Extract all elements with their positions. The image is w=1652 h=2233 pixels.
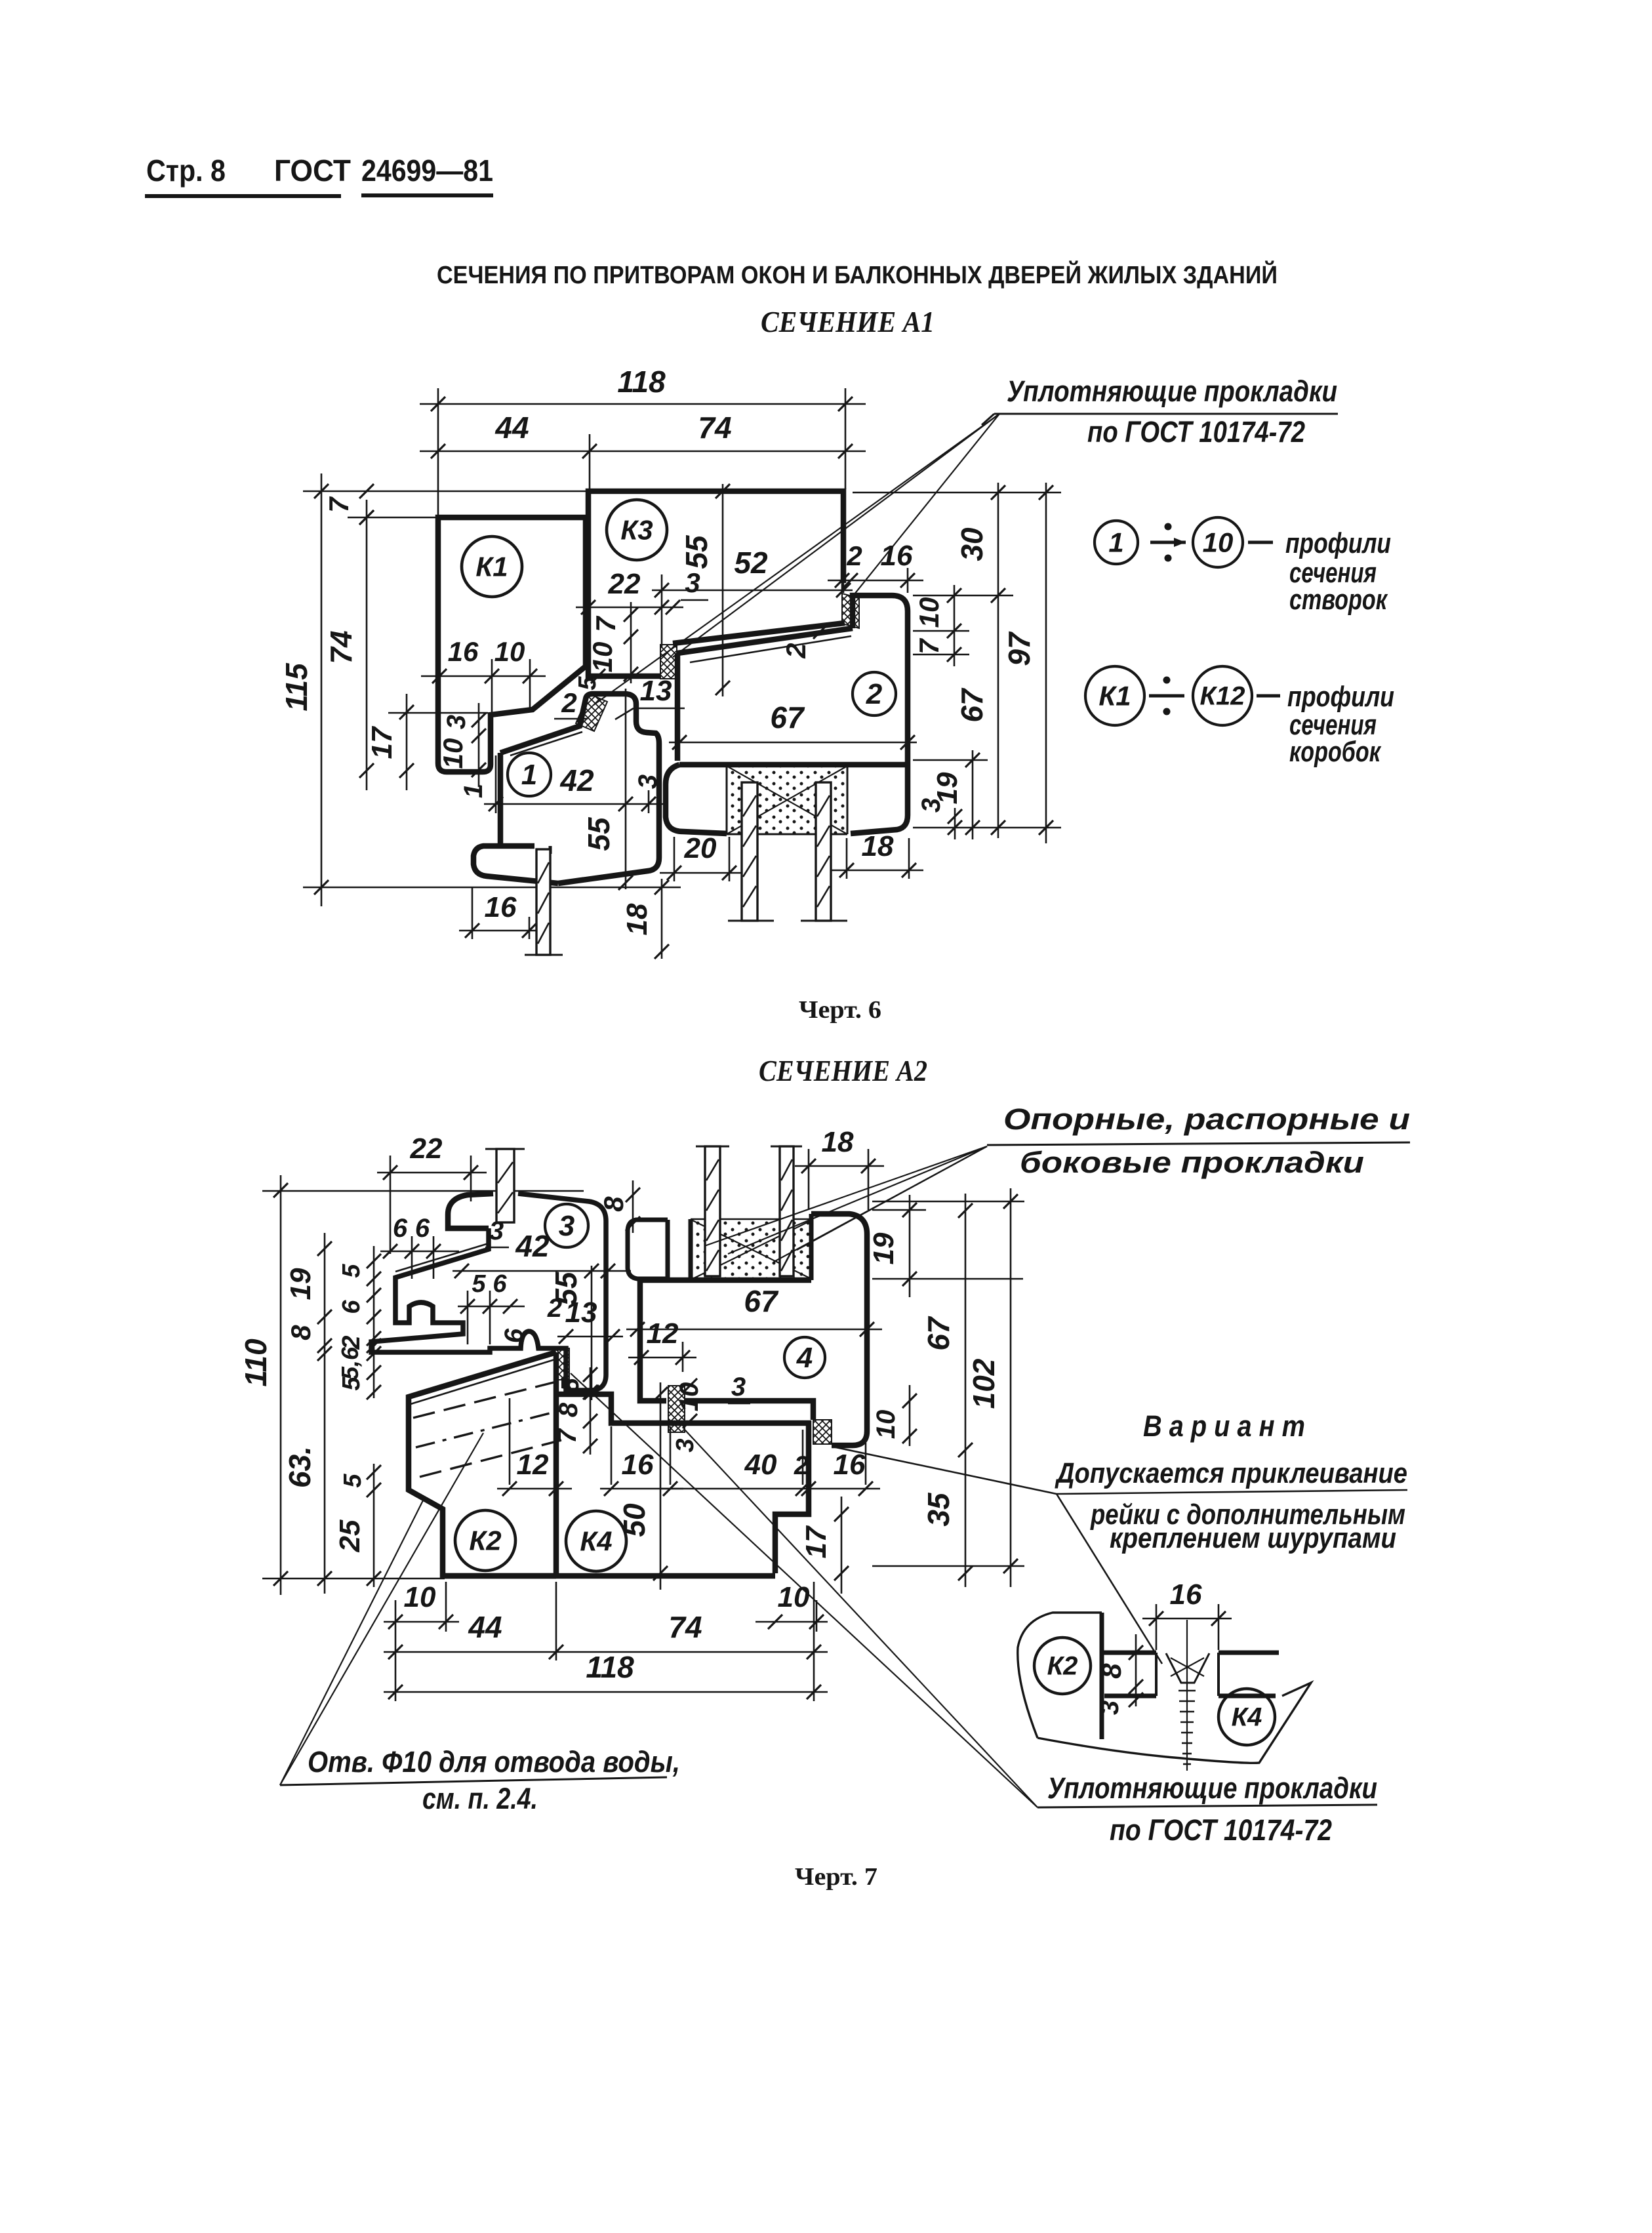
dim 35	[965, 1470, 967, 1587]
seal top right hatch	[842, 593, 859, 628]
svg-text:67: 67	[744, 1284, 779, 1318]
K4 bottom edge	[443, 1573, 775, 1579]
svg-text:35: 35	[921, 1492, 956, 1527]
svg-text:13: 13	[565, 1297, 597, 1329]
dim 67 d2	[626, 1329, 882, 1331]
svg-text:8: 8	[285, 1325, 316, 1340]
legend divide sign 1	[1150, 541, 1186, 544]
profile K2 outline	[409, 1352, 556, 1576]
dim 3 / 10 small	[478, 703, 480, 787]
profile 1 left edge	[498, 753, 504, 847]
svg-text:К3: К3	[620, 514, 653, 545]
svg-text:10: 10	[1203, 527, 1234, 557]
svg-text:67: 67	[955, 687, 989, 723]
variant circle K4	[1219, 1689, 1275, 1745]
circle 4	[784, 1337, 825, 1378]
svg-text:створок: створок	[1289, 584, 1388, 616]
svg-text:К1: К1	[475, 551, 508, 582]
dim 42 d2	[453, 1270, 631, 1272]
profile 3 inner slope line	[395, 1243, 489, 1272]
svg-text:12: 12	[517, 1449, 549, 1481]
svg-text:10: 10	[437, 738, 468, 769]
svg-text:4: 4	[796, 1342, 813, 1374]
glazing bead 3 block	[628, 1220, 668, 1279]
svg-text:6: 6	[338, 1300, 365, 1314]
seal profile3 hatch	[555, 1348, 569, 1380]
dim 118 top	[420, 403, 866, 405]
svg-text:Черт. 6: Черт. 6	[799, 996, 881, 1024]
legend circle K12	[1193, 666, 1252, 725]
dims 5 8 7 col	[590, 1367, 592, 1455]
svg-text:44: 44	[494, 411, 529, 445]
svg-text:СЕЧЕНИЕ А1: СЕЧЕНИЕ А1	[761, 305, 935, 338]
svg-text:19: 19	[285, 1268, 317, 1300]
glass pane 4a	[705, 1146, 720, 1276]
svg-text:1: 1	[1108, 527, 1123, 557]
variant dim 8	[1135, 1634, 1137, 1706]
svg-text:боковые прокладки: боковые прокладки	[1020, 1146, 1364, 1179]
otv leader lines	[280, 1433, 483, 1785]
svg-text:40: 40	[744, 1449, 777, 1481]
header underline right	[361, 193, 493, 197]
dim 40	[660, 1488, 817, 1490]
svg-text:18: 18	[822, 1126, 854, 1158]
svg-text:3: 3	[731, 1373, 746, 1401]
dim 18 bottom left of profile2	[661, 879, 663, 959]
dim 10 bottom right	[755, 1621, 828, 1623]
svg-text:3: 3	[917, 798, 946, 813]
svg-text:110: 110	[239, 1338, 273, 1387]
svg-text:3: 3	[1095, 1700, 1124, 1715]
dim 2 16 top right	[828, 580, 923, 582]
profile 4 glass U walls	[689, 1219, 693, 1280]
dim 67 right col	[965, 1194, 967, 1470]
leader fan packing (opornye)	[704, 1146, 987, 1246]
svg-text:6: 6	[493, 1270, 507, 1298]
variant dim 16	[1142, 1618, 1232, 1620]
circle K3	[607, 500, 667, 560]
dim 16 glass1	[459, 930, 546, 932]
svg-text:16: 16	[622, 1449, 654, 1481]
header underline left	[145, 194, 341, 198]
svg-text:63.: 63.	[283, 1446, 317, 1488]
dim 18 d2	[795, 1165, 884, 1167]
svg-text:8: 8	[1096, 1663, 1127, 1679]
svg-text:профили: профили	[1285, 527, 1391, 559]
svg-text:74: 74	[668, 1610, 702, 1644]
svg-text:16: 16	[834, 1449, 866, 1481]
leader fan top (seals)	[594, 414, 999, 705]
profile 2 right edge	[851, 611, 908, 834]
svg-text:17: 17	[366, 725, 398, 759]
svg-text:6: 6	[393, 1214, 408, 1243]
circle K2	[455, 1510, 515, 1571]
dim 7 left	[359, 484, 374, 498]
dim 3 right	[954, 808, 956, 839]
svg-text:СЕЧЕНИЕ А2: СЕЧЕНИЕ А2	[759, 1054, 927, 1087]
svg-text:3: 3	[559, 1210, 574, 1242]
svg-text:Опорные, распорные и: Опорные, распорные и	[1003, 1102, 1410, 1136]
profile K1 outline	[438, 517, 586, 772]
svg-text:102: 102	[967, 1358, 1001, 1409]
svg-text:44: 44	[468, 1610, 502, 1644]
circle K1	[462, 536, 522, 597]
svg-text:55: 55	[679, 534, 714, 569]
variant screw axis and thread	[1186, 1620, 1188, 1771]
svg-text:118: 118	[586, 1650, 634, 1684]
svg-text:3: 3	[685, 567, 700, 598]
svg-text:К1: К1	[1098, 680, 1131, 711]
dim 52	[652, 590, 853, 592]
dim 6 6 top	[380, 1251, 459, 1253]
svg-text:97: 97	[1002, 631, 1036, 666]
svg-text:25: 25	[334, 1519, 366, 1552]
svg-text:см. п. 2.4.: см. п. 2.4.	[422, 1782, 538, 1815]
svg-text:55: 55	[582, 816, 616, 851]
dim 74 left	[366, 500, 368, 790]
svg-text:1: 1	[521, 759, 537, 791]
opornye leader line	[987, 1142, 1410, 1145]
svg-text:10: 10	[494, 636, 525, 667]
dim 97 right	[1045, 483, 1047, 843]
svg-text:118: 118	[617, 365, 666, 399]
glass pane 3	[496, 1149, 514, 1222]
svg-text:Уплотняющие прокладки: Уплотняющие прокладки	[1007, 374, 1337, 408]
svg-text:13: 13	[640, 675, 672, 707]
dim 44 bottom	[384, 1651, 828, 1653]
variant rail bottom	[1104, 1694, 1156, 1699]
legend dash 2	[1257, 694, 1280, 698]
svg-text:16: 16	[485, 891, 517, 923]
K2-K4 divider	[554, 1352, 559, 1576]
circle 2	[853, 672, 896, 715]
circle 1	[508, 753, 551, 796]
seal profile4 left hatch	[668, 1386, 685, 1432]
seal profile4 right hatch	[813, 1420, 832, 1444]
svg-text:Допускается приклеивание: Допускается приклеивание	[1055, 1457, 1407, 1489]
profile 2 shelf	[679, 762, 908, 768]
legend circle 10	[1193, 517, 1243, 567]
dim 50	[660, 1382, 662, 1590]
K2 drainage dash lines	[413, 1381, 559, 1418]
profile 3 body	[371, 1194, 606, 1390]
svg-text:5: 5	[338, 1264, 365, 1278]
dim 5 6 mid	[458, 1306, 525, 1308]
left dim col 19	[324, 1233, 326, 1333]
svg-text:Уплотняющие прокладки: Уплотняющие прокладки	[1047, 1771, 1377, 1805]
svg-text:22: 22	[410, 1133, 443, 1165]
glass pane 1	[536, 849, 550, 955]
svg-text:16: 16	[1170, 1579, 1202, 1611]
glass pane 4b	[780, 1146, 794, 1276]
dim 18 under profile2	[832, 870, 923, 872]
dim 67 right	[997, 606, 999, 838]
svg-text:50: 50	[617, 1503, 651, 1537]
svg-text:7: 7	[323, 496, 354, 513]
profile 4 left and bottom	[640, 1280, 666, 1401]
leader text line	[994, 413, 1338, 415]
circle 3	[545, 1204, 588, 1247]
svg-text:42: 42	[559, 763, 594, 797]
dim 110	[280, 1175, 282, 1595]
svg-text:коробок: коробок	[1289, 736, 1382, 768]
svg-text:12: 12	[647, 1318, 679, 1350]
svg-text:74: 74	[698, 411, 731, 445]
profile K4 outline	[556, 1394, 809, 1573]
seal K3-sash hatch	[660, 645, 677, 679]
left dim col 63	[324, 1333, 326, 1594]
svg-text:Отв. Ф10 для отвода воды,: Отв. Ф10 для отвода воды,	[308, 1745, 680, 1779]
svg-text:10: 10	[587, 642, 618, 673]
dim 12 b	[628, 1357, 696, 1359]
dim 16 10 (K1 bottom)	[421, 675, 546, 677]
svg-text:К4: К4	[1232, 1703, 1262, 1732]
svg-text:7: 7	[914, 638, 944, 654]
svg-text:ГОСТ: ГОСТ	[274, 153, 351, 188]
right extension lines	[913, 595, 1013, 597]
left small col ticks	[373, 1246, 375, 1398]
profile 2 top edge	[853, 595, 908, 628]
svg-text:К2: К2	[1047, 1652, 1078, 1681]
svg-text:креплением шурупами: креплением шурупами	[1110, 1522, 1396, 1554]
svg-text:19: 19	[868, 1232, 900, 1264]
legend dash 1	[1248, 541, 1273, 544]
dim 102	[1010, 1188, 1012, 1587]
glass stop lines	[728, 920, 774, 922]
svg-text:Черт. 7: Черт. 7	[795, 1863, 877, 1891]
legend divide sign 2	[1149, 694, 1184, 698]
svg-text:по ГОСТ 10174-72: по ГОСТ 10174-72	[1110, 1813, 1332, 1847]
svg-text:5: 5	[339, 1474, 367, 1488]
variant circle K2	[1034, 1638, 1091, 1694]
dim 8 glass top d2	[632, 1180, 634, 1233]
svg-text:17: 17	[800, 1525, 832, 1558]
svg-text:115: 115	[279, 662, 313, 712]
dim 10 bottom left	[384, 1621, 459, 1623]
glass pane 2b	[816, 782, 831, 921]
dim 55 profile1 height	[625, 689, 627, 889]
profile 3 outline	[448, 1194, 493, 1228]
dim 55 K3	[722, 484, 724, 696]
variant screw countersink	[1166, 1653, 1209, 1683]
svg-text:10: 10	[404, 1581, 436, 1613]
svg-text:20: 20	[684, 832, 717, 864]
svg-text:10: 10	[914, 597, 944, 628]
svg-text:профили: профили	[1287, 681, 1394, 713]
svg-text:3: 3	[442, 715, 471, 729]
dim 7 right	[947, 647, 961, 662]
svg-text:2: 2	[561, 687, 576, 718]
svg-text:74: 74	[324, 630, 358, 664]
legend circle 1	[1095, 521, 1138, 564]
svg-text:СЕЧЕНИЯ ПО ПРИТВОРАМ ОКОН И БА: СЕЧЕНИЯ ПО ПРИТВОРАМ ОКОН И БАЛКОННЫХ ДВ…	[437, 260, 1278, 289]
K2 inner slope line	[411, 1359, 555, 1404]
bead1 inner wall	[549, 846, 552, 854]
svg-text:2: 2	[547, 1294, 562, 1323]
svg-text:10: 10	[778, 1581, 810, 1613]
seal K1 hatch	[576, 694, 607, 731]
svg-text:по ГОСТ 10174-72: по ГОСТ 10174-72	[1087, 415, 1305, 449]
variant dim 3	[1129, 1693, 1143, 1707]
svg-text:42: 42	[515, 1229, 550, 1263]
svg-text:6: 6	[415, 1214, 430, 1243]
svg-text:22: 22	[608, 568, 641, 600]
dim 118 bottom	[384, 1691, 828, 1693]
dim 30 right	[997, 483, 999, 606]
svg-text:5: 5	[338, 1377, 365, 1391]
bead 2 left	[666, 765, 727, 834]
variant rail top	[1102, 1651, 1156, 1655]
glazing bead 1	[473, 846, 558, 883]
vestibule slope lines	[673, 623, 845, 643]
dopuskaetsya leader	[1057, 1490, 1407, 1494]
dim 115 left	[321, 473, 323, 906]
svg-text:18: 18	[862, 830, 894, 862]
svg-text:10: 10	[872, 1410, 900, 1439]
profile 1 outline	[500, 694, 659, 883]
profile 4 right side	[811, 1214, 867, 1445]
legend circle K1	[1085, 666, 1144, 725]
svg-text:67: 67	[921, 1316, 956, 1351]
uplotn bottom leaders	[685, 1430, 1038, 1807]
svg-text:16: 16	[448, 636, 479, 667]
dim 12 left d2	[497, 1488, 572, 1490]
dim 19 right d2	[909, 1195, 911, 1297]
dim 42 profile1	[484, 803, 664, 805]
dim 16 mid d2	[600, 1488, 683, 1490]
dim 17 rot	[841, 1497, 843, 1594]
dim 10 right	[954, 585, 956, 666]
svg-text:1: 1	[459, 784, 488, 798]
glass pane 2a	[742, 782, 757, 921]
dim 19 right	[972, 750, 974, 839]
packing d2 dots	[693, 1220, 811, 1279]
svg-text:К4: К4	[580, 1525, 612, 1556]
dim 22 d2	[377, 1172, 487, 1174]
dim 17	[406, 694, 408, 790]
profile 4 upper shelf	[640, 1277, 811, 1283]
svg-text:18: 18	[621, 903, 653, 935]
glass caps d2	[696, 1146, 729, 1148]
circle K4	[566, 1511, 626, 1571]
profile 1 inner slope line	[510, 732, 582, 755]
svg-text:К2: К2	[469, 1525, 501, 1556]
svg-text:Стр. 8: Стр. 8	[146, 153, 226, 188]
svg-text:2: 2	[866, 678, 883, 710]
dim 44	[420, 451, 866, 453]
svg-text:7: 7	[590, 616, 621, 632]
svg-text:5: 5	[472, 1270, 486, 1298]
svg-text:5,6: 5,6	[336, 1346, 363, 1380]
svg-text:2: 2	[846, 540, 862, 571]
dim 55 d2	[591, 1266, 593, 1400]
dim 20	[660, 872, 742, 874]
svg-text:52: 52	[734, 546, 768, 580]
dim 22	[576, 607, 683, 609]
svg-text:30: 30	[955, 527, 989, 561]
packing band drawing1	[727, 766, 847, 834]
variant detail K2 body	[1018, 1613, 1102, 1738]
dim 67 profile2	[669, 742, 917, 744]
profile K3 outline	[588, 491, 843, 676]
svg-text:67: 67	[770, 700, 805, 734]
svg-text:В а р и а н т: В а р и а н т	[1143, 1409, 1305, 1443]
profile 2 left edge	[675, 653, 681, 761]
svg-text:К12: К12	[1199, 682, 1245, 711]
left dim col 8	[317, 1338, 332, 1353]
dim 7 and 10 mid	[630, 602, 632, 683]
dim 16 right d2	[817, 1488, 880, 1490]
svg-text:24699—81: 24699—81	[361, 153, 493, 188]
